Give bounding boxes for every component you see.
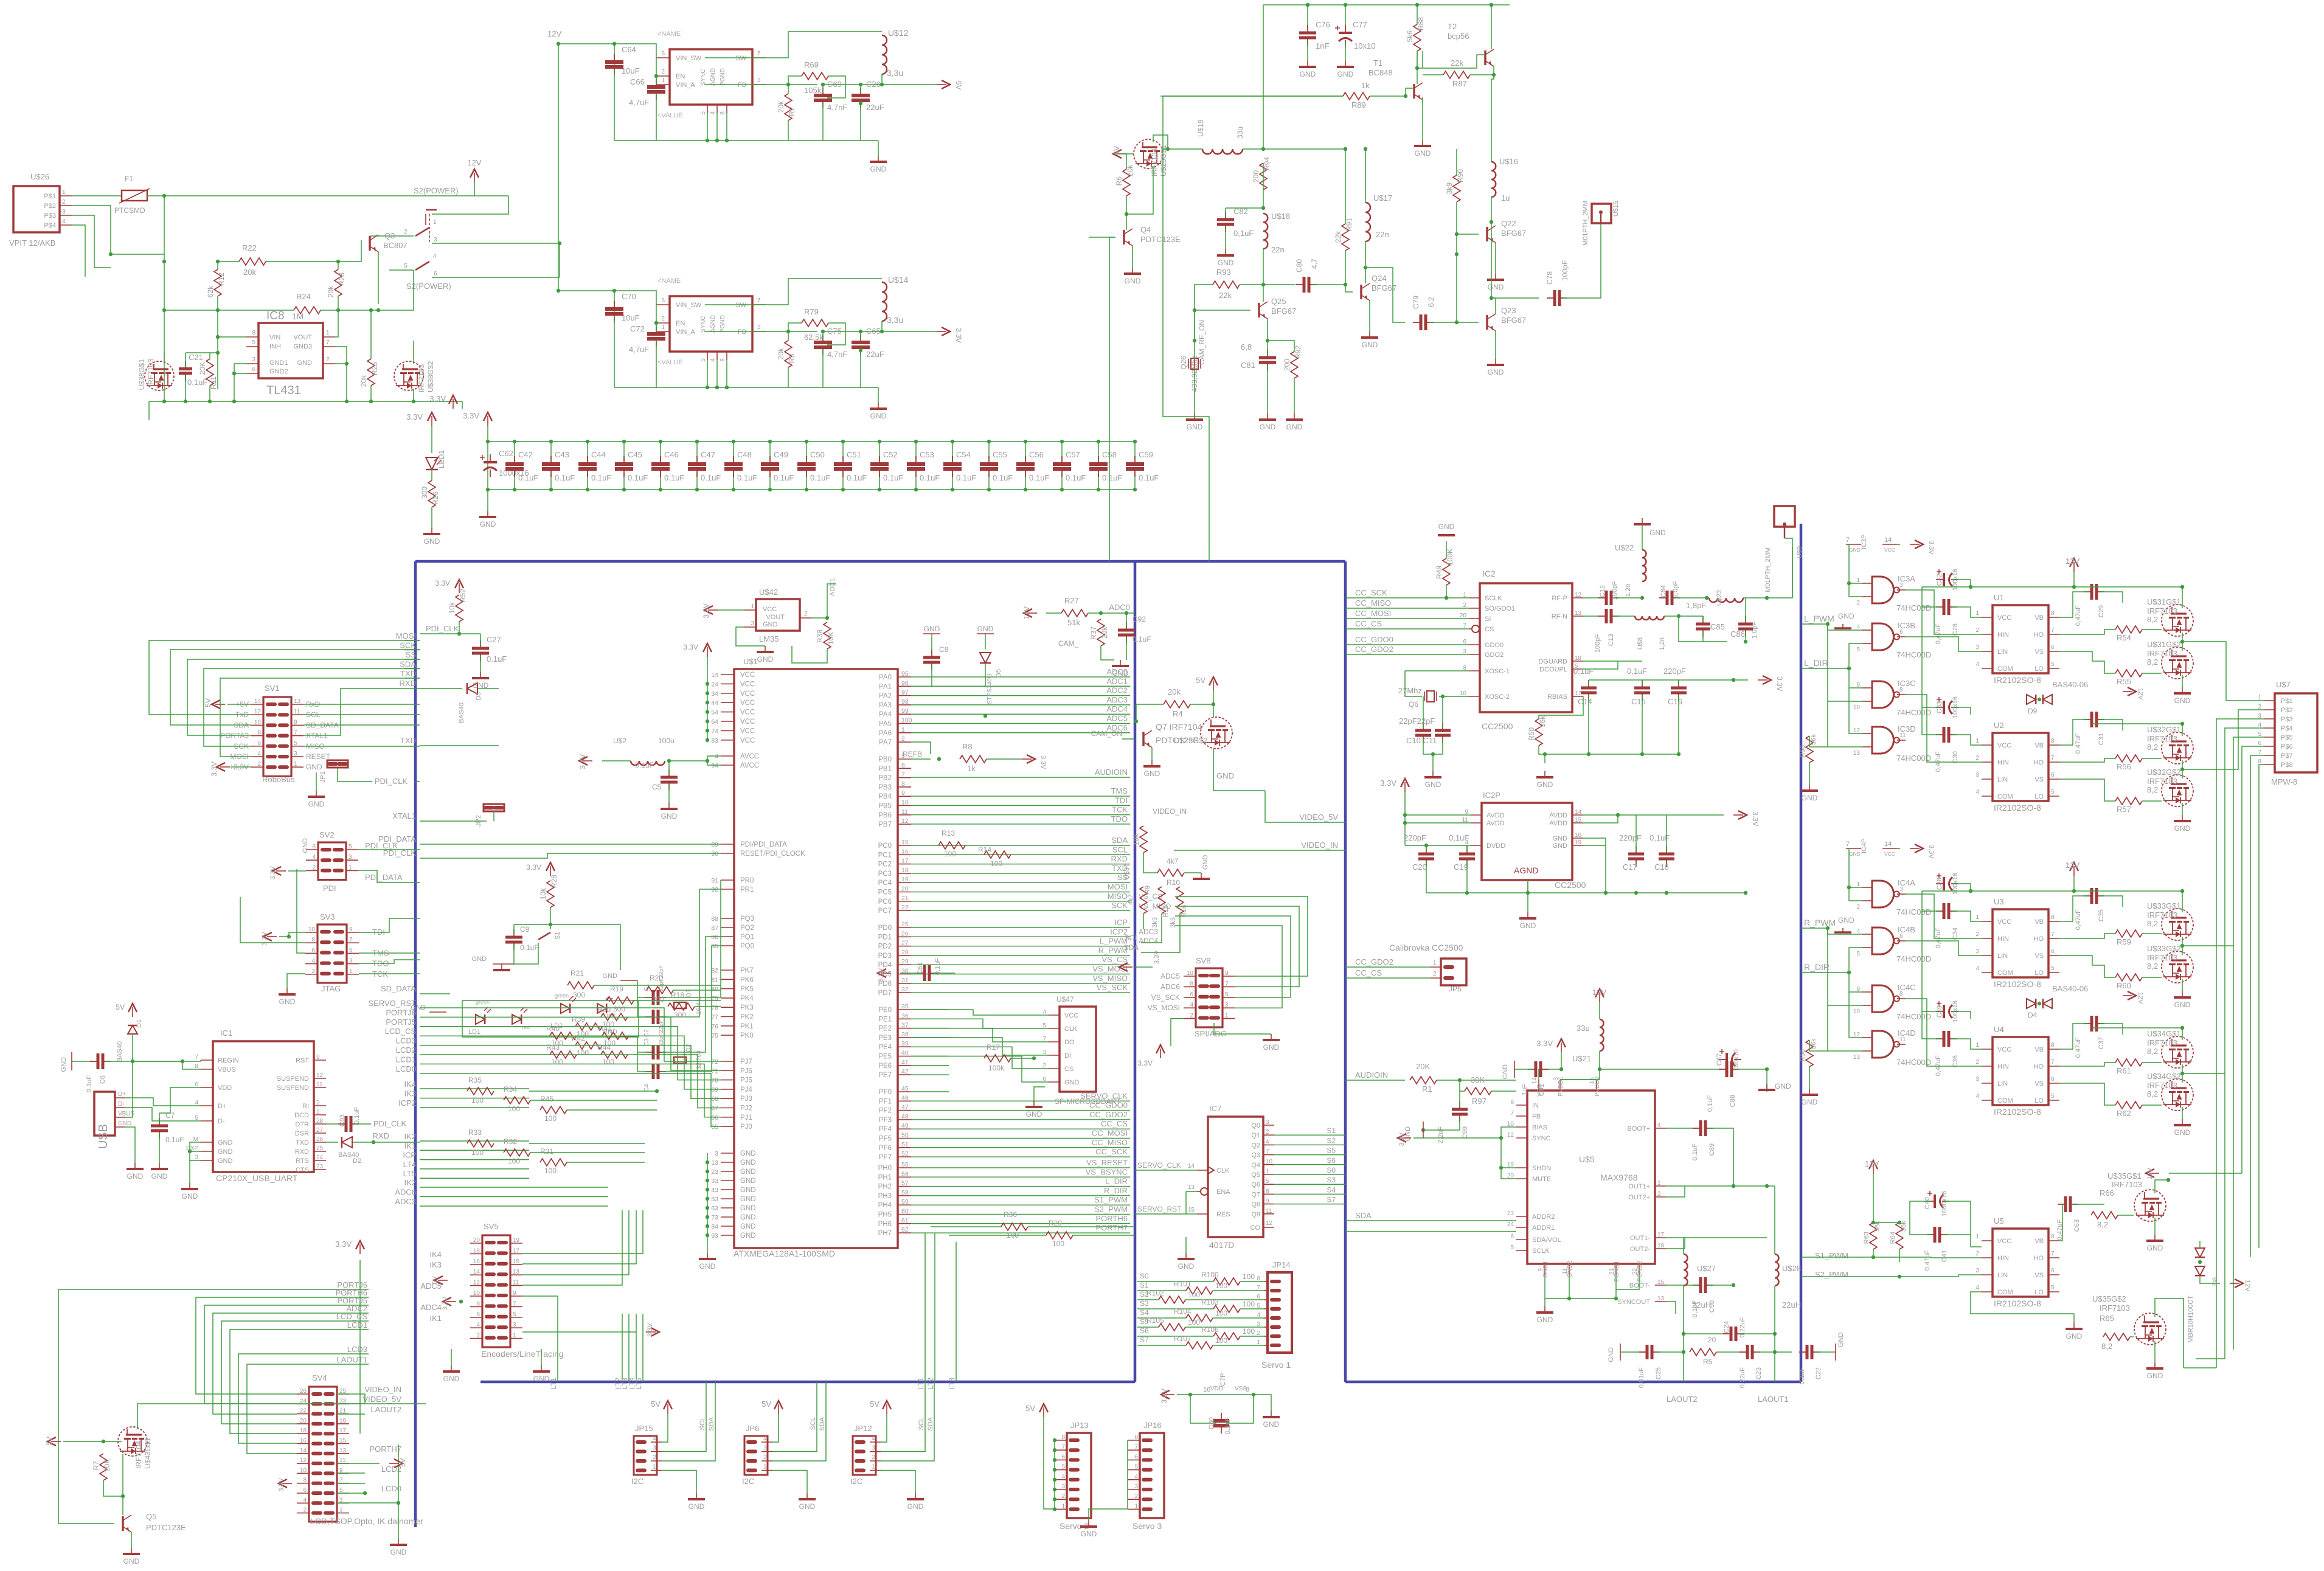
svg-text:SERVO_CLK: SERVO_CLK [1137,1161,1181,1170]
svg-text:VCC: VCC [740,690,755,698]
svg-text:2: 2 [1975,1059,1979,1066]
svg-text:HO: HO [2034,1063,2044,1070]
svg-text:3: 3 [757,77,761,84]
svg-text:GND: GND [870,165,887,173]
svg-text:IK1: IK1 [429,1314,442,1323]
svg-text:R88: R88 [1417,17,1425,30]
svg-text:R89: R89 [1351,100,1366,109]
svg-text:P$3: P$3 [44,212,56,220]
svg-text:ADC3: ADC3 [1139,928,1158,936]
svg-text:22k: 22k [1219,291,1232,300]
svg-text:24: 24 [711,681,718,688]
svg-text:green: green [555,993,569,999]
svg-text:LCD3: LCD3 [396,1036,416,1046]
svg-text:5: 5 [349,844,352,850]
svg-text:Q5: Q5 [1251,1171,1260,1179]
svg-text:GND: GND [1415,149,1431,158]
svg-text:300: 300 [652,995,664,1004]
svg-text:S2_PWM: S2_PWM [1094,1205,1128,1214]
svg-text:GND: GND [661,812,678,820]
svg-text:R56: R56 [2117,762,2131,771]
svg-text:IN: IN [1532,1102,1539,1109]
svg-text:16: 16 [1575,832,1582,839]
svg-text:12: 12 [300,1457,307,1464]
svg-text:GND: GND [1502,1064,1509,1080]
svg-text:0,47uF: 0,47uF [1935,623,1942,645]
svg-text:SV5: SV5 [484,1222,499,1231]
svg-text:U$16: U$16 [1499,157,1518,166]
svg-text:4: 4 [710,111,716,115]
svg-text:PK5: PK5 [740,986,754,993]
svg-text:IC2: IC2 [1482,569,1496,578]
svg-text:12V: 12V [1022,606,1031,619]
svg-text:U$47: U$47 [1056,995,1074,1004]
svg-text:SCLK: SCLK [1485,595,1502,602]
svg-text:6: 6 [257,740,261,747]
svg-text:26: 26 [300,1388,307,1395]
svg-text:VCC: VCC [1064,1012,1078,1019]
svg-text:2: 2 [326,356,330,363]
svg-text:15: 15 [901,839,909,846]
svg-text:100: 100 [990,859,1002,868]
svg-text:20: 20 [473,1237,480,1244]
svg-text:14: 14 [473,1269,480,1275]
svg-text:Q23: Q23 [1501,306,1516,315]
svg-text:51k: 51k [1067,618,1080,627]
svg-text:R107: R107 [1174,1334,1191,1343]
svg-text:GND: GND [870,412,887,420]
svg-text:7: 7 [2051,627,2055,634]
svg-text:R105: R105 [1146,1316,1164,1325]
svg-text:66: 66 [711,1114,718,1122]
svg-text:C37: C37 [2098,1037,2105,1049]
svg-text:FB: FB [738,328,746,336]
svg-text:C40: C40 [1924,1197,1931,1209]
svg-text:U$27: U$27 [1697,1264,1716,1273]
svg-text:PD7: PD7 [878,990,892,997]
svg-text:VCC: VCC [1997,1238,2011,1245]
svg-text:HIN: HIN [1997,631,2009,639]
svg-text:RESET/PDI_CLOCK: RESET/PDI_CLOCK [740,850,805,858]
svg-text:8: 8 [1246,1386,1249,1393]
svg-text:C38: C38 [1936,878,1943,890]
svg-text:VCC: VCC [763,606,777,613]
svg-text:VIDEO_IN: VIDEO_IN [364,1385,401,1394]
svg-text:GND: GND [1849,547,1861,553]
svg-text:PC7: PC7 [878,907,892,915]
svg-text:2: 2 [62,199,66,206]
svg-text:SCL: SCL [1112,845,1128,854]
svg-text:1u: 1u [1501,193,1510,203]
svg-text:U$18: U$18 [1271,212,1290,221]
svg-text:DGUARD: DGUARD [1538,658,1567,665]
svg-text:Q8: Q8 [1251,1201,1260,1209]
svg-text:PK1: PK1 [740,1023,754,1030]
svg-text:9: 9 [1266,1198,1269,1205]
svg-text:GND: GND [390,1548,407,1556]
svg-text:CAM_ON: CAM_ON [1091,729,1122,738]
svg-text:PB4: PB4 [878,793,892,800]
svg-text:83: 83 [711,737,718,744]
svg-text:12: 12 [473,1280,480,1286]
svg-text:SF-MICROSDDART: SF-MICROSDDART [1055,1097,1121,1106]
svg-text:TMS: TMS [1111,786,1128,796]
svg-text:27Mhz: 27Mhz [1398,686,1422,695]
svg-text:P$2: P$2 [44,203,56,210]
svg-text:IK4: IK4 [429,1250,442,1259]
svg-text:C24: C24 [1723,1321,1730,1333]
svg-text:3.3V: 3.3V [1380,779,1396,788]
svg-text:17: 17 [1657,1232,1665,1238]
svg-text:PD1: PD1 [878,934,892,941]
svg-text:CTS: CTS [296,1167,309,1174]
svg-text:3.3V: 3.3V [1927,541,1935,555]
svg-text:CC2500: CC2500 [1555,880,1586,890]
svg-text:C53: C53 [920,450,934,459]
svg-text:TXD: TXD [400,669,416,678]
svg-text:R69: R69 [804,60,819,69]
svg-text:100: 100 [1243,1300,1255,1308]
svg-text:53: 53 [711,1196,718,1203]
svg-text:PDI_CLK: PDI_CLK [426,624,459,633]
svg-text:R12: R12 [217,272,226,286]
svg-text:3.3V: 3.3V [954,328,963,343]
svg-text:U$25G$2: U$25G$2 [1174,736,1208,745]
svg-text:ADC4: ADC4 [420,1303,442,1312]
svg-text:1: 1 [1975,914,1979,921]
svg-text:12V: 12V [2244,1280,2251,1292]
svg-text:PB2: PB2 [878,775,892,782]
svg-text:C54: C54 [956,450,971,459]
svg-text:6: 6 [2051,644,2055,651]
svg-text:R20: R20 [650,974,663,982]
svg-text:PH2: PH2 [878,1184,892,1191]
svg-text:100: 100 [544,1167,557,1175]
svg-text:2: 2 [257,761,261,768]
svg-text:VIDEO_IN: VIDEO_IN [1153,807,1187,816]
svg-text:R17: R17 [987,1043,1000,1052]
svg-text:74HC00D: 74HC00D [1896,954,1931,963]
svg-text:XOSC-2: XOSC-2 [1485,693,1510,701]
svg-text:LCD1: LCD1 [347,1320,367,1330]
svg-text:22pF22pF: 22pF22pF [1399,716,1435,726]
svg-text:IC7: IC7 [1209,1104,1221,1113]
svg-text:6: 6 [661,50,665,57]
svg-text:CC_GDO2: CC_GDO2 [1355,645,1393,654]
svg-text:DTR: DTR [295,1121,309,1128]
svg-text:PDI_CLK: PDI_CLK [373,1119,407,1128]
svg-text:3: 3 [294,751,297,757]
svg-text:PB7: PB7 [878,821,892,828]
svg-text:C18: C18 [1654,862,1669,872]
svg-text:2: 2 [316,1100,320,1106]
svg-text:C87: C87 [1716,1053,1723,1066]
svg-text:0.1uF: 0.1uF [847,473,867,482]
svg-text:5: 5 [2051,1285,2055,1291]
svg-text:16: 16 [473,1258,480,1265]
svg-text:0.1uF: 0.1uF [555,473,575,482]
svg-text:10: 10 [1853,704,1861,711]
svg-text:VB: VB [2034,1046,2044,1053]
svg-text:0.1uF: 0.1uF [737,473,757,482]
svg-text:SUSPEND: SUSPEND [277,1084,309,1092]
svg-text:JP14: JP14 [1272,1260,1291,1269]
svg-text:C22: C22 [1815,1367,1822,1379]
svg-text:3.3V: 3.3V [442,1296,449,1310]
svg-text:Q5: Q5 [146,1512,156,1521]
svg-text:100pF: 100pF [1594,634,1601,653]
svg-text:GND: GND [1849,851,1861,857]
svg-text:GND: GND [1081,1530,1097,1538]
svg-text:GND: GND [1775,1082,1791,1091]
svg-text:74HC00D: 74HC00D [1896,907,1931,917]
svg-text:8,2: 8,2 [2097,1220,2108,1229]
svg-text:GND: GND [740,1150,756,1157]
svg-text:3.3V: 3.3V [1153,950,1160,964]
svg-text:11: 11 [901,808,908,816]
svg-text:C76: C76 [1316,20,1330,29]
svg-text:Encoders/LineTracing: Encoders/LineTracing [481,1349,564,1359]
svg-text:VCC: VCC [740,709,755,716]
svg-text:5V: 5V [116,1003,125,1011]
svg-text:12V: 12V [2066,557,2079,566]
svg-text:MPW-8: MPW-8 [2271,777,2297,786]
svg-text:3.3V: 3.3V [1039,755,1047,769]
svg-text:20k: 20k [1126,164,1134,176]
svg-text:PORTJ6: PORTJ6 [386,1008,416,1017]
svg-text:AVCC: AVCC [740,762,759,769]
svg-text:GND3: GND3 [293,343,312,350]
svg-text:S2_PWM: S2_PWM [1815,1270,1848,1279]
svg-text:GND: GND [757,655,774,664]
svg-text:7: 7 [757,50,761,57]
svg-text:3: 3 [434,237,437,243]
svg-text:R24: R24 [296,292,311,301]
svg-text:20: 20 [1708,1336,1716,1344]
svg-text:AUDIOIN: AUDIOIN [1355,1070,1388,1080]
svg-text:CLK: CLK [1064,1025,1078,1033]
svg-text:IRF7103: IRF7103 [2147,649,2177,658]
svg-text:JP12: JP12 [854,1424,872,1433]
svg-text:PF2: PF2 [879,1108,892,1115]
svg-text:GND: GND [1838,612,1854,620]
svg-text:IK3: IK3 [404,1089,416,1098]
svg-text:PGND: PGND [720,68,726,86]
svg-text:90: 90 [711,850,718,858]
svg-text:C72: C72 [630,324,645,333]
svg-text:C14: C14 [1578,697,1592,706]
svg-text:C13: C13 [1608,634,1615,646]
svg-text:U$2: U$2 [613,737,626,745]
svg-text:PD0: PD0 [878,924,892,932]
svg-text:HIN: HIN [1997,1063,2009,1070]
svg-text:JP13: JP13 [1070,1421,1089,1430]
svg-text:100: 100 [1188,1318,1200,1327]
svg-text:70: 70 [711,1077,718,1084]
svg-text:GDO0: GDO0 [1485,642,1504,649]
svg-text:PH7: PH7 [878,1230,892,1237]
svg-text:5: 5 [1856,647,1860,653]
svg-text:VCC: VCC [1884,851,1895,857]
svg-text:SW: SW [735,55,746,62]
svg-text:BC848: BC848 [1368,68,1393,77]
svg-text:3.3V: 3.3V [1137,1059,1153,1067]
svg-text:JP2: JP2 [475,815,482,827]
svg-text:52: 52 [901,1150,909,1157]
svg-text:10x10: 10x10 [1354,41,1375,50]
svg-text:VB: VB [2034,742,2044,749]
svg-text:SDA: SDA [819,1417,826,1431]
svg-text:CP210X_USB_UART: CP210X_USB_UART [216,1173,298,1183]
svg-text:0.1uF: 0.1uF [591,473,611,482]
svg-text:17: 17 [1575,690,1582,697]
svg-text:GND: GND [1553,842,1568,850]
svg-text:PQ3: PQ3 [740,915,754,923]
svg-text:S4: S4 [1327,1185,1336,1194]
svg-text:SYNC: SYNC [700,69,707,86]
svg-text:VS_RESET: VS_RESET [1086,1158,1128,1167]
svg-text:R16: R16 [1181,905,1188,917]
svg-text:220pF: 220pF [1404,833,1426,842]
svg-text:IK4: IK4 [404,1080,416,1089]
svg-text:D+: D+ [218,1103,226,1110]
svg-text:LAOUT2: LAOUT2 [1667,1395,1698,1404]
svg-text:GND: GND [480,520,496,529]
svg-text:16Mhz: 16Mhz [696,996,702,1014]
svg-text:6: 6 [476,1311,480,1318]
svg-text:P$2: P$2 [2281,707,2293,714]
svg-text:14: 14 [254,698,262,705]
svg-text:U$32G$1: U$32G$1 [2147,725,2181,734]
svg-text:VS_SCK: VS_SCK [1097,983,1128,992]
svg-text:100: 100 [577,1049,589,1057]
svg-text:PH6: PH6 [878,1221,892,1228]
svg-text:8: 8 [476,1300,480,1307]
svg-text:100: 100 [508,1105,520,1113]
svg-text:3: 3 [763,1445,767,1452]
svg-text:0.1uF: 0.1uF [1102,473,1122,482]
svg-text:R34: R34 [504,1085,517,1094]
svg-text:25: 25 [316,1145,324,1152]
svg-text:16: 16 [300,1438,307,1444]
svg-text:PB0: PB0 [878,756,892,763]
svg-text:R25: R25 [370,362,379,375]
svg-text:0,1uF: 0,1uF [1233,229,1254,238]
svg-text:Q7: Q7 [1251,1191,1260,1198]
svg-text:0.1uF: 0.1uF [1133,635,1151,643]
svg-text:GND: GND [603,973,618,980]
svg-text:SCL: SCL [1125,934,1139,942]
svg-text:PR1: PR1 [740,886,754,893]
svg-text:AVDD: AVDD [1486,812,1505,819]
svg-text:GND: GND [472,955,487,963]
svg-text:GND: GND [1553,835,1568,842]
svg-text:58: 58 [901,1189,909,1196]
svg-text:HIN: HIN [1997,759,2009,766]
svg-text:14: 14 [1531,1077,1538,1084]
svg-text:6: 6 [2051,1268,2055,1274]
svg-text:36: 36 [901,1012,909,1019]
svg-text:P$6: P$6 [2281,743,2293,751]
svg-text:PDI_CLK: PDI_CLK [365,841,398,850]
svg-text:62,5k: 62,5k [804,333,824,342]
svg-text:GND: GND [1608,1347,1615,1362]
svg-text:2: 2 [1134,1493,1138,1500]
svg-text:7: 7 [2051,755,2055,761]
svg-text:3.3V: 3.3V [335,1240,352,1249]
svg-text:C35: C35 [2098,909,2105,921]
svg-text:R66: R66 [2100,1188,2114,1198]
svg-text:RXD: RXD [295,1148,309,1156]
svg-text:C92: C92 [1133,615,1146,623]
svg-text:R41: R41 [598,1024,612,1033]
svg-text:4017D: 4017D [1209,1240,1234,1250]
svg-text:PE2: PE2 [878,1025,892,1033]
svg-text:SDA: SDA [927,1417,934,1431]
svg-text:4,7nF: 4,7nF [827,103,847,112]
svg-text:20k: 20k [327,285,335,297]
svg-text:S1: S1 [554,932,561,940]
svg-text:S6: S6 [1327,1156,1336,1165]
svg-text:18: 18 [1657,1243,1665,1249]
svg-text:Q3: Q3 [1251,1152,1260,1159]
svg-text:C19: C19 [1454,862,1468,872]
svg-text:R52: R52 [459,589,467,602]
svg-text:SYNC: SYNC [1532,1135,1551,1142]
svg-text:0.1uF: 0.1uF [1224,1417,1232,1434]
svg-text:4k7: 4k7 [1167,857,1179,865]
svg-text:61: 61 [901,1217,909,1224]
svg-text:PA0: PA0 [879,674,892,681]
svg-text:DCOUPL: DCOUPL [1539,666,1567,673]
svg-text:VS_BSYNC: VS_BSYNC [1086,1167,1128,1176]
svg-text:C70: C70 [622,292,636,301]
svg-text:U$42: U$42 [759,588,778,597]
svg-text:RXD: RXD [373,1131,389,1140]
svg-text:R2: R2 [788,106,796,116]
svg-text:C79: C79 [1412,296,1420,309]
svg-text:33u: 33u [1236,127,1244,139]
svg-text:BOOT+: BOOT+ [1627,1125,1650,1132]
svg-text:SS: SS [406,650,417,659]
svg-text:85: 85 [711,943,718,950]
svg-text:C77: C77 [1353,20,1367,29]
svg-text:6: 6 [661,297,665,304]
svg-text:L_PWM: L_PWM [1804,614,1834,623]
svg-text:PB1: PB1 [878,765,892,772]
svg-text:GND: GND [740,1187,756,1194]
svg-text:42: 42 [901,1068,909,1075]
svg-text:GND: GND [1838,916,1854,924]
svg-text:IC7P: IC7P [1219,1373,1227,1388]
svg-text:R106: R106 [1201,1325,1219,1334]
svg-text:R3: R3 [788,353,796,363]
svg-text:GND: GND [127,1172,144,1181]
svg-text:C5: C5 [652,783,662,791]
svg-text:R8: R8 [962,742,973,751]
svg-text:1: 1 [1433,960,1437,966]
svg-text:300: 300 [674,1011,686,1019]
svg-text:R79: R79 [804,307,819,316]
svg-text:U$38G$1: U$38G$1 [137,359,146,390]
svg-text:RTS: RTS [296,1157,309,1165]
svg-text:0,22uF: 0,22uF [1739,1367,1746,1389]
svg-text:U$14: U$14 [888,275,909,285]
svg-text:5: 5 [700,358,707,362]
svg-text:R97: R97 [1472,1097,1486,1106]
svg-text:LT3: LT3 [948,1378,956,1390]
svg-text:20k: 20k [1168,687,1181,696]
